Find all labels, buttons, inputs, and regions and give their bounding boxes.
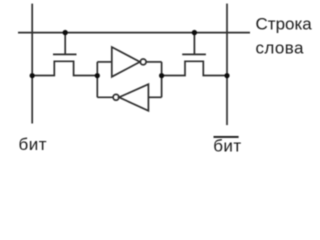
wire node Qbar right loop vertical	[161, 62, 163, 97]
junction Q1 source to bit line	[30, 73, 35, 78]
svg-text:Строка: Строка	[256, 15, 313, 34]
label bit-bar overline	[214, 136, 239, 138]
junction Q1 gate to word line	[62, 30, 67, 35]
svg-text:бит: бит	[19, 135, 48, 154]
wire inverter U1 output	[146, 61, 162, 63]
transistor Q1 channel	[32, 61, 97, 75]
inverter U1 bubble	[140, 59, 146, 65]
node Qbar junction	[159, 73, 164, 78]
wire word line WL (Строка слова)	[18, 32, 250, 34]
transistor Q2 gate stem	[193, 33, 195, 55]
op-amp inverter U2 triangle	[119, 84, 148, 111]
wire inverter U1 input	[97, 61, 112, 63]
junction Q2 drain to bit-bar line	[224, 73, 229, 78]
wire bit-bar line BLB (бит with overbar)	[226, 4, 228, 126]
transistor Q2 channel	[162, 61, 227, 75]
wire inverter U2 input	[148, 96, 161, 98]
wire bit line BL (бит)	[31, 4, 33, 124]
transistor Q1 gate bar	[53, 53, 77, 55]
node Q junction	[95, 73, 100, 78]
svg-text:слова: слова	[256, 38, 305, 57]
inverter U2 bubble	[113, 94, 119, 100]
wire inverter U2 output	[97, 96, 113, 98]
svg-text:бит: бит	[213, 137, 242, 156]
transistor Q2 gate bar	[182, 53, 206, 55]
wire node Q left loop vertical	[96, 62, 98, 97]
junction Q2 gate to word line	[192, 30, 197, 35]
op-amp inverter U1 triangle	[112, 47, 140, 77]
transistor Q1 gate stem	[64, 33, 66, 55]
